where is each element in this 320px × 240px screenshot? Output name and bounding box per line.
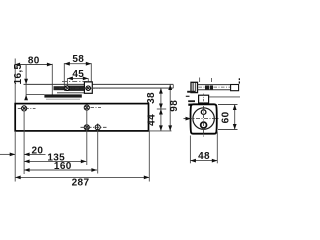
top-left ledge of body bbox=[188, 100, 195, 102]
bracket inner rib 2 bbox=[194, 82, 196, 92]
screw hole H3 bbox=[84, 125, 89, 130]
big circle (spring tube end) bbox=[193, 108, 214, 129]
svg-text:60: 60 bbox=[221, 111, 232, 123]
arrow down (top of 16,5) bbox=[24, 79, 28, 85]
closer body end view (barrel) bbox=[191, 104, 217, 133]
arrow left of dim 45 bbox=[67, 77, 73, 81]
pivot block dark segment 2 bbox=[210, 86, 213, 90]
wire: extension line pivot 1 (dim 45) bbox=[66, 78, 68, 86]
wire: 48 left extension bbox=[189, 136, 191, 164]
centre tick 1 above arm bbox=[199, 78, 201, 83]
svg-text:44: 44 bbox=[147, 114, 158, 126]
arrow up (dim 60 top) bbox=[233, 105, 237, 111]
wire: extension line shoe plate right (dim 58) bbox=[90, 63, 92, 82]
wire: extension line body left edge up (for dim 80) bbox=[14, 59, 16, 104]
arrow right of dim 160 bbox=[91, 168, 97, 172]
body top edge lip bbox=[188, 104, 193, 106]
svg-text:80: 80 bbox=[28, 55, 40, 66]
wire: H2 centerline dash-dot bbox=[91, 107, 102, 109]
wire: extension through H4 down bbox=[97, 130, 99, 174]
svg-text:16,5: 16,5 bbox=[13, 63, 24, 84]
screw hole H1 bbox=[22, 106, 27, 111]
knuckle box at plate right end bbox=[84, 82, 92, 93]
pivot screw 1 bbox=[65, 86, 70, 91]
arrow right of dim 80 bbox=[47, 63, 53, 67]
wire: small dash left of frame line bbox=[186, 95, 190, 97]
svg-text:287: 287 bbox=[72, 178, 90, 189]
dimension 38 line bbox=[160, 88, 162, 109]
arrow left of dim 80 bbox=[15, 63, 21, 67]
wire: crosshair vertical dash-dot bbox=[203, 106, 205, 137]
wire: extension through H1 down bbox=[23, 111, 25, 174]
svg-text:160: 160 bbox=[54, 161, 72, 172]
arrow up (bottom of 16,5) bbox=[24, 95, 28, 101]
slide rail bar bbox=[44, 94, 81, 97]
svg-text:20: 20 bbox=[31, 145, 43, 156]
dimension 58 line bbox=[64, 63, 91, 65]
arrow right of dim 135 bbox=[81, 160, 87, 164]
centre tick 2 above arm bbox=[211, 78, 213, 82]
wire: body bottom extension right bbox=[149, 130, 172, 132]
wire: frame line under arm bbox=[198, 96, 240, 98]
wire: stub extension line for 38/44 bbox=[157, 108, 166, 110]
arrow left of dim 287 bbox=[15, 176, 21, 180]
arrow right of dim 45 bbox=[83, 77, 89, 81]
wire: 60 top extension bbox=[218, 104, 238, 106]
wire: pivot centerline dash-dot bbox=[59, 87, 100, 89]
rail end bracket bbox=[191, 82, 198, 92]
dimension 20 leader from left edge bbox=[0, 153, 15, 155]
arrow down (dim 38 bottom) bbox=[159, 104, 163, 110]
pivot screw 2 bbox=[86, 86, 91, 91]
pinion boss box bbox=[199, 95, 209, 103]
wire: extension line pivot 2 (dim 45) bbox=[87, 78, 89, 85]
bracket inner rib 1 bbox=[192, 82, 194, 92]
spindle hole H4 bbox=[95, 124, 100, 131]
arrow left of dim 48 bbox=[190, 159, 196, 163]
dimension 45 line bbox=[67, 77, 88, 79]
svg-text:58: 58 bbox=[72, 54, 84, 65]
small circle top (valve) bbox=[201, 110, 206, 115]
arrow down (dim 60 bottom) bbox=[233, 124, 237, 130]
wire: extension line shoe plate left (dim 58) bbox=[63, 63, 65, 85]
arrow at left extension (dim 20) bbox=[10, 153, 16, 157]
wire: extension body right edge down bbox=[148, 131, 150, 182]
dimension 48 line bbox=[190, 160, 217, 162]
wire: 48 right extension bbox=[216, 132, 218, 164]
forearm end cap bbox=[172, 85, 174, 89]
forearm line bbox=[92, 87, 174, 89]
arrow down (dim 44 bottom) bbox=[159, 125, 163, 130]
wire: hole row 2 centerline dash-dot bbox=[81, 126, 108, 128]
wire: crosshair horizontal dash-dot bbox=[188, 118, 220, 120]
arrow up (dim 38 top) bbox=[159, 88, 163, 94]
svg-text:45: 45 bbox=[72, 69, 84, 80]
arrow up (dim 44 top) bbox=[159, 109, 163, 115]
dimension 160 line bbox=[24, 169, 97, 171]
wire: boss centreline tick bbox=[203, 94, 205, 103]
side arm bottom line bbox=[198, 89, 231, 91]
arm end box right bbox=[231, 85, 239, 91]
arrow left of dim 135 bbox=[24, 160, 30, 164]
arm shoe plate bbox=[64, 86, 91, 91]
arrow right of dim 58 bbox=[86, 62, 92, 66]
dimension 80 line bbox=[15, 64, 53, 66]
svg-text:98: 98 bbox=[169, 100, 180, 112]
wire: dashed line above plate bbox=[62, 81, 92, 83]
dimension 98 line bbox=[169, 85, 171, 131]
arrow left of dim 58 bbox=[64, 62, 70, 66]
wire: top reference line (frame face) bbox=[24, 83, 174, 85]
wire: extension through H2 down bbox=[86, 105, 88, 166]
wire: arm centreline dash-dot bbox=[199, 86, 234, 88]
dimension 60 line bbox=[234, 105, 236, 130]
dimension 20 right segment bbox=[24, 153, 45, 155]
wire: rail top line left bbox=[26, 94, 44, 96]
wire: H1 centerline dash-dot bbox=[18, 107, 36, 109]
svg-text:38: 38 bbox=[146, 92, 157, 104]
arrow right of dim 48 bbox=[212, 159, 218, 163]
dimension 44 line bbox=[160, 109, 162, 131]
arrow up (dim 98 top) bbox=[168, 85, 172, 91]
dimension 16,5 vertical line bbox=[25, 65, 27, 100]
wire: rail lower edge bbox=[46, 98, 80, 100]
wire: step line under plate bbox=[57, 92, 89, 94]
svg-text:48: 48 bbox=[198, 151, 210, 162]
pivot block dark segment 1 bbox=[205, 86, 209, 90]
wire: extension line pinion axis (right end of dim 80) bbox=[51, 64, 53, 97]
arrow right of dim 287 bbox=[144, 176, 150, 180]
closer body outline bbox=[15, 104, 148, 131]
arrow left of dim 160 bbox=[24, 168, 30, 172]
arrow down (dim 98 bottom) bbox=[168, 125, 172, 130]
screw hole H2 bbox=[84, 105, 89, 110]
side arm top line bbox=[198, 84, 239, 86]
clipped centreline ticks at right edge bbox=[238, 78, 240, 80]
dimension 287 line bbox=[15, 176, 149, 178]
wire: extension body left edge down bbox=[14, 131, 16, 182]
dimension 135 line bbox=[24, 160, 86, 162]
bracket foot bbox=[187, 91, 195, 93]
wire: 60 bottom extension bbox=[218, 129, 238, 131]
main arm from pinion bbox=[54, 86, 67, 90]
small circle bottom (valve) bbox=[201, 122, 207, 128]
leader arrow at body left bbox=[184, 118, 188, 120]
arrow at right extension (dim 20) bbox=[24, 153, 30, 157]
